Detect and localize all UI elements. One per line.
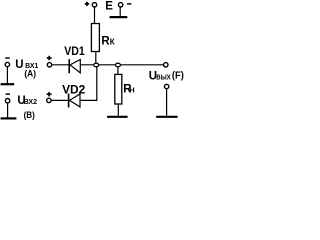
diode VD2 bbox=[69, 94, 80, 108]
terminal Uin2 plus bbox=[47, 98, 51, 102]
wire input1 to VD1 bbox=[52, 64, 69, 66]
svg-text:К: К bbox=[110, 37, 115, 46]
svg-text:ВЫХ: ВЫХ bbox=[156, 72, 170, 81]
svg-text:(B): (B) bbox=[24, 110, 35, 120]
wire output terminal to ground bbox=[166, 89, 168, 116]
terminal Uin1 minus bbox=[5, 62, 9, 66]
minus sign input 1 bbox=[5, 57, 9, 59]
wire Rn bottom down bbox=[117, 104, 119, 116]
terminal Uin2 minus bbox=[5, 99, 9, 103]
svg-text:(A): (A) bbox=[24, 68, 36, 78]
wire to input2 ground bbox=[7, 103, 9, 118]
svg-text:E: E bbox=[105, 0, 113, 12]
ground bar input 2 bbox=[1, 117, 17, 119]
terminal +E bbox=[92, 3, 96, 7]
ground bar input 1 bbox=[1, 83, 15, 85]
resistor Rk bbox=[91, 24, 99, 52]
terminal -E bbox=[118, 3, 122, 7]
wire Rk bottom to node bbox=[95, 52, 97, 65]
svg-text:ВХ2: ВХ2 bbox=[24, 97, 37, 106]
minus sign of supply E bbox=[127, 3, 131, 5]
ground bar at output bbox=[156, 116, 177, 118]
plus sign input 1 bbox=[47, 56, 52, 60]
wire input2 to VD2 bbox=[51, 99, 68, 101]
svg-text:Н: Н bbox=[129, 86, 134, 95]
output ground terminal bbox=[164, 84, 168, 88]
diode VD1 bbox=[69, 59, 80, 73]
minus sign input 2 bbox=[6, 93, 10, 95]
svg-text:(F): (F) bbox=[172, 70, 184, 81]
wire node1 down to VD2 bbox=[80, 67, 97, 101]
plus sign of supply E bbox=[85, 2, 89, 6]
node junction 2 bbox=[115, 63, 120, 67]
wire from +E terminal to Rk bbox=[94, 7, 96, 24]
wire node2 down to Rn bbox=[117, 67, 119, 75]
svg-text:U: U bbox=[15, 59, 23, 71]
wire to input1 ground bbox=[6, 67, 8, 84]
common (ground) bar of supply bbox=[110, 16, 128, 18]
resistor Rn bbox=[115, 74, 122, 104]
wire from -E terminal down bbox=[119, 7, 121, 16]
output rail wire bbox=[80, 64, 164, 66]
output terminal bbox=[164, 63, 168, 67]
svg-text:VD2: VD2 bbox=[62, 82, 85, 96]
node junction 1 bbox=[94, 63, 99, 67]
ground bar under Rn bbox=[107, 116, 128, 118]
terminal Uin1 plus bbox=[47, 63, 51, 67]
svg-text:VD1: VD1 bbox=[64, 44, 85, 58]
plus sign input 2 bbox=[47, 92, 52, 96]
